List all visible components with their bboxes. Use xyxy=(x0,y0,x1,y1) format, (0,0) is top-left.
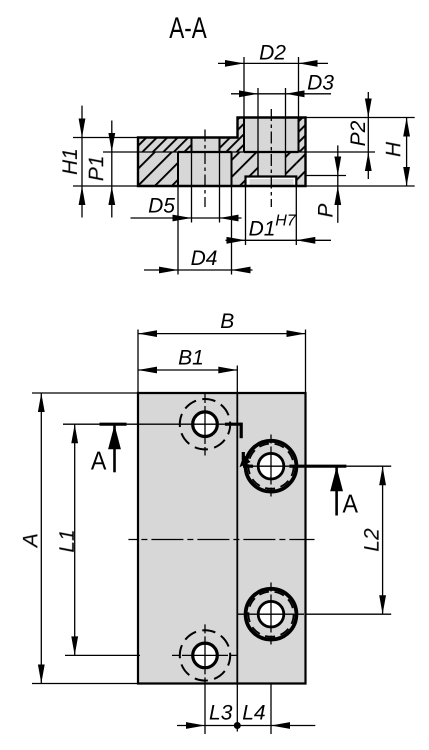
centerline bottom-right hole xyxy=(238,613,305,615)
hole top-left (D5/D4) xyxy=(193,412,218,437)
counterbore D4 left wall xyxy=(177,152,179,186)
dimension B xyxy=(137,330,139,394)
dimension H xyxy=(406,118,408,187)
svg-text:H: H xyxy=(382,141,405,157)
counterbore D4 shoulder xyxy=(178,151,232,153)
centerline left hole xyxy=(204,130,206,208)
svg-text:P2: P2 xyxy=(347,120,370,146)
seam line between pieces xyxy=(138,151,306,153)
svg-text:B: B xyxy=(220,310,234,333)
section arrow A right xyxy=(335,467,338,515)
svg-text:A: A xyxy=(20,533,43,549)
section jog arrow xyxy=(240,455,251,468)
dimension P2 xyxy=(367,92,369,179)
dimension L2 xyxy=(305,613,391,615)
svg-text:D5: D5 xyxy=(148,195,175,218)
plate outline xyxy=(138,393,306,684)
svg-text:P1: P1 xyxy=(85,155,108,181)
svg-text:D3: D3 xyxy=(307,72,334,95)
section arrow A left xyxy=(113,425,116,472)
counterbore D4 right wall xyxy=(231,152,233,186)
hole bottom-left (D5/D4) xyxy=(193,643,218,668)
svg-text:A: A xyxy=(91,446,107,476)
svg-text:H7: H7 xyxy=(275,213,297,230)
hole D5 left wall xyxy=(191,138,193,153)
dimension D2 xyxy=(218,62,328,64)
svg-text:A-A: A-A xyxy=(169,12,207,45)
svg-text:L1: L1 xyxy=(56,529,79,552)
svg-text:P: P xyxy=(315,204,338,218)
svg-text:D4: D4 xyxy=(191,247,218,270)
hole D5 right wall xyxy=(219,138,221,153)
dimension D4 xyxy=(177,186,179,275)
svg-text:L2: L2 xyxy=(361,528,384,552)
centerline right bore xyxy=(270,109,272,207)
recess D1 interior xyxy=(246,177,297,187)
hatching upper piece (fine) xyxy=(138,138,192,153)
plate horizontal centerline xyxy=(128,539,314,541)
dimension L1 xyxy=(65,654,140,656)
dimension P xyxy=(337,145,339,222)
svg-text:B1: B1 xyxy=(178,347,204,370)
dimension D3 xyxy=(231,93,331,95)
dimension B1 xyxy=(236,366,238,394)
hole bottom-right (D1/D2/D3) xyxy=(246,589,297,640)
bore D2 left wall xyxy=(243,118,245,153)
extension lines right xyxy=(306,117,415,119)
svg-text:L3: L3 xyxy=(209,702,233,725)
plan view plate xyxy=(138,393,306,684)
svg-text:L4: L4 xyxy=(242,702,265,725)
dimension P1 xyxy=(103,151,138,153)
step edge B1 xyxy=(236,393,238,684)
section part body xyxy=(138,118,306,187)
centerline bottom-left hole xyxy=(172,654,237,656)
section cut line through top-left hole xyxy=(63,423,100,425)
dimension H1 xyxy=(73,137,138,139)
svg-text:H1: H1 xyxy=(59,148,82,175)
dimension D5 xyxy=(191,152,193,223)
hatching lower piece (coarse) xyxy=(138,152,178,186)
section line jog xyxy=(240,423,243,439)
bore D3 left wall xyxy=(257,152,259,177)
dimension D1 H7 xyxy=(245,186,247,245)
bore D2 right wall xyxy=(298,118,300,153)
svg-text:D2: D2 xyxy=(259,42,286,65)
bore D2 shoulder xyxy=(244,151,299,153)
dimension A xyxy=(32,392,138,394)
svg-text:D1: D1 xyxy=(249,217,276,240)
section part outline xyxy=(138,118,306,187)
bore D3 right wall xyxy=(285,152,287,177)
dimensions L3 and L4 xyxy=(204,684,206,735)
svg-text:A: A xyxy=(343,489,359,519)
section cut line through top-right hole xyxy=(243,465,253,468)
recess D1 H7 outline xyxy=(246,177,297,187)
hole top-right (D1/D2/D3) xyxy=(246,441,297,492)
